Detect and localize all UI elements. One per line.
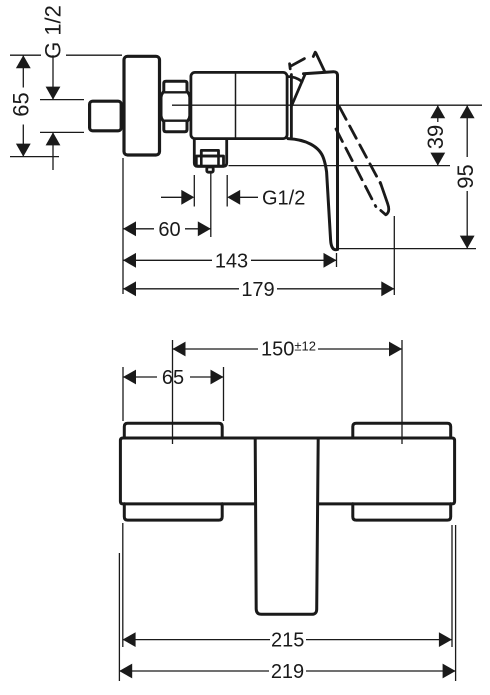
ext line outlet centre [210, 173, 212, 238]
front handle [255, 439, 318, 615]
open handle dashed rear edge [336, 129, 376, 207]
arrow 215 right [439, 632, 452, 647]
open handle dash seg c [313, 52, 315, 56]
ext line outlet left [193, 175, 195, 207]
arrow 39 up [430, 105, 445, 118]
outlet nut face right [217, 156, 220, 166]
valve body (side view) [191, 72, 287, 138]
handle dome arc [288, 77, 302, 82]
handle lower J-curve [288, 139, 336, 250]
arrow 65f left [123, 370, 136, 385]
svg-text:215: 215 [271, 630, 304, 652]
body division line [235, 72, 237, 138]
arrow G1/2 up [46, 132, 61, 145]
dim line 143 [123, 259, 337, 261]
arrow 95 down [460, 236, 475, 249]
arrow 150 right [389, 342, 402, 357]
arrow 219 left [119, 664, 132, 679]
svg-text:65: 65 [162, 367, 184, 389]
open handle dashed front edge [340, 107, 382, 185]
arrow 65f right [211, 370, 224, 385]
arrow 143 right [324, 253, 337, 268]
ext line right esc centre (front) [401, 340, 403, 444]
arrow 65 down [16, 144, 31, 157]
arrow 60 right [198, 221, 211, 236]
ext line 219 right [455, 525, 457, 681]
left escutcheon bottom band [124, 504, 222, 520]
arrow 179 left [123, 281, 136, 296]
dim line 215 [123, 639, 452, 641]
leader arrow line G1/2 left [161, 196, 182, 198]
ext line spigot bottom [40, 131, 84, 133]
svg-text:143: 143 [215, 250, 248, 272]
dim line 150 [173, 348, 403, 350]
arrow 65 up [16, 55, 31, 68]
dim line 60 [123, 228, 211, 230]
open handle dash seg b [291, 59, 305, 67]
svg-text:G1/2: G1/2 [262, 187, 305, 209]
svg-text:179: 179 [241, 279, 274, 301]
arrow 179 right [381, 281, 394, 296]
arrow 219 right [443, 664, 456, 679]
ext line 39 bottom [229, 165, 451, 167]
svg-text:95: 95 [453, 164, 478, 188]
outlet nipple [201, 150, 218, 156]
ext line 65 bottom [10, 156, 59, 158]
svg-text:65: 65 [9, 92, 34, 116]
ext line 215 right [451, 525, 453, 647]
svg-text:60: 60 [158, 219, 180, 241]
union nut [161, 81, 190, 131]
open handle dash seg a [288, 64, 291, 69]
outlet nub [207, 167, 213, 172]
ext line 215 left [122, 523, 124, 647]
arrow G1/2 down [46, 87, 61, 100]
leader arrow line G1/2 right [239, 196, 258, 198]
right escutcheon bottom band [353, 504, 451, 520]
arrow 215 left [123, 632, 136, 647]
arrow 95 up [460, 105, 475, 118]
ext line escutcheon left lower [122, 158, 124, 294]
handle neck rear edge [292, 74, 306, 106]
dim line 39 vertical [437, 105, 439, 165]
nut face line lower [163, 119, 187, 121]
open handle tip hook [380, 183, 388, 215]
arrow 143 left [123, 253, 136, 268]
open handle dash seg d [316, 53, 325, 72]
svg-text:219: 219 [271, 661, 304, 683]
outlet nut face left [200, 156, 203, 166]
outlet nut [196, 156, 223, 166]
ext line top (escutcheon top) [10, 54, 122, 56]
ext line outlet right [226, 175, 228, 207]
arrow 150 left [173, 342, 186, 357]
centerline [172, 104, 482, 106]
nut face line upper [163, 91, 187, 93]
dim line 219 [120, 670, 456, 672]
dim line 179 [123, 288, 394, 290]
ext line spigot top [40, 99, 84, 101]
outlet cup [194, 140, 226, 166]
ext line left esc centre (front) [172, 340, 174, 444]
handle grip (closed) [304, 72, 338, 250]
handle collar line [290, 75, 293, 138]
arrow outlet left [181, 190, 194, 205]
right escutcheon top band [353, 423, 451, 438]
escutcheon (side view) [124, 56, 160, 155]
arrow 60 left [123, 221, 136, 236]
leader G1/2 top [52, 55, 54, 170]
ext line handle front [336, 253, 338, 267]
arrow outlet right [227, 190, 240, 205]
ext lines 65 front [123, 367, 224, 421]
left escutcheon top band [124, 423, 222, 438]
dim line 65 front [123, 376, 224, 378]
dim line 95 vertical [466, 105, 468, 248]
svg-text:G 1/2: G 1/2 [41, 5, 66, 59]
arrow 39 down [430, 153, 445, 166]
wall spigot G1/2 [90, 101, 122, 131]
dim line 65 vertical [22, 55, 24, 156]
ext line 219 left [118, 553, 120, 681]
svg-text:39: 39 [423, 125, 448, 149]
front view: wall bar body [120, 438, 454, 504]
ext line open handle tip [393, 216, 395, 295]
ext line 95 bottom [337, 248, 477, 250]
